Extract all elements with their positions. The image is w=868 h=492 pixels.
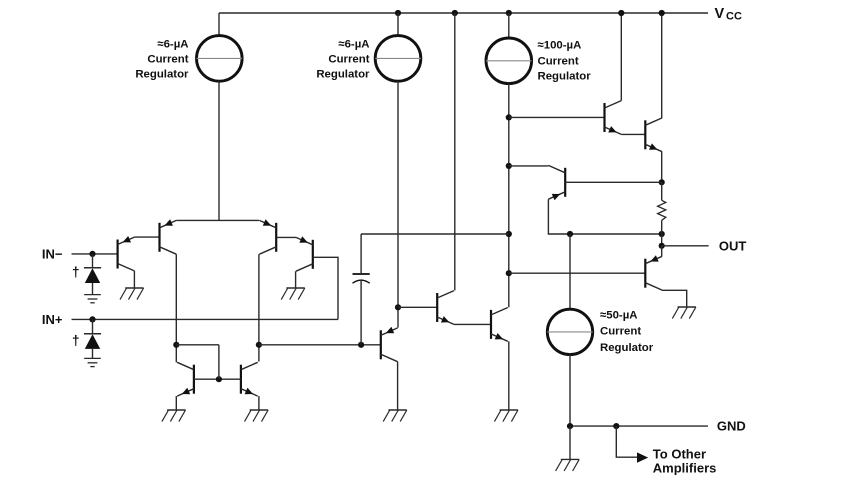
- junction U2/Q6-base dot: [395, 304, 401, 310]
- wire U4 top stem: [569, 234, 571, 309]
- svg-text:IN+: IN+: [42, 312, 63, 327]
- wire Q12 emitter down to R1: [661, 152, 663, 183]
- wire VCC to Q6 collector: [454, 13, 456, 290]
- wire U3 bus to Q10 collector: [509, 165, 549, 167]
- junction VCC-Q11 dot: [618, 10, 624, 16]
- junction VCC-U3 dot: [506, 10, 512, 16]
- wire U2 node to Q6 base: [398, 306, 437, 308]
- ground Q9 emitter: [245, 410, 269, 422]
- wire U3 top stem: [508, 13, 510, 38]
- ground Q1 collector: [120, 288, 144, 300]
- transistor Q5: [381, 327, 398, 362]
- wire Q6 emitter to Q7 base: [454, 323, 491, 325]
- transistor Q4: [296, 236, 313, 271]
- wire Q7 emitter to ground: [508, 341, 510, 410]
- svg-text:CC: CC: [726, 11, 742, 23]
- wire C1 bottom lead: [360, 281, 362, 345]
- svg-text:†: †: [72, 264, 80, 279]
- arrow to-other-amplifiers: [637, 452, 648, 462]
- svg-text:Regulator: Regulator: [600, 342, 654, 354]
- wire Q13 emitter to OUT node: [661, 246, 663, 256]
- label U1 value: [135, 38, 189, 80]
- transistor Q3: [259, 219, 276, 254]
- wire Q4 emitter to Q3 base: [276, 236, 296, 238]
- junction VCC-U2 dot: [395, 10, 401, 16]
- wire D2 anode to ground: [92, 349, 94, 358]
- svg-text:OUT: OUT: [719, 238, 747, 253]
- wire IN- to D1: [92, 254, 94, 268]
- wire Q9 collector up: [258, 345, 260, 362]
- wire R1 node to OUT: [661, 234, 663, 246]
- power VCC label: [715, 6, 742, 23]
- ground GND rail: [556, 459, 580, 471]
- ground D1: [84, 295, 101, 303]
- wire node A (input stage output): [259, 344, 381, 346]
- transistor Q12: [645, 118, 662, 152]
- wire Q10 emitter down: [548, 199, 661, 234]
- wire Q8 collector up: [175, 345, 177, 363]
- wire VCC rail: [219, 12, 708, 14]
- junction U3 bus / Q10 collector dot: [506, 163, 512, 169]
- wire Q1 emitter to Q2 base: [134, 236, 159, 238]
- wire GND rail to ground: [569, 426, 571, 459]
- wire C1 top lead: [360, 234, 362, 273]
- wire Q4 collector down: [295, 271, 297, 288]
- junction VCC-Q12 dot: [659, 10, 665, 16]
- transistor Q7: [491, 308, 508, 342]
- wire to-other-amplifiers branch: [616, 426, 637, 457]
- wire Q4 base to IN+: [313, 257, 338, 319]
- wire Q3 collector down to mirror: [258, 254, 260, 345]
- wire U2 top stem: [397, 13, 399, 36]
- transistor Q13: [645, 255, 662, 290]
- wire C1 to U3 bus: [361, 233, 509, 235]
- wire U1 top stem: [218, 13, 220, 36]
- ground D2: [84, 358, 101, 366]
- capacitor C1: [353, 274, 370, 283]
- wire IN+ to D2: [92, 319, 94, 333]
- diode D1: [84, 268, 101, 283]
- label U4 value: [600, 309, 654, 354]
- svg-text:To Other: To Other: [653, 446, 706, 461]
- junction mirror right node dot: [256, 342, 262, 348]
- junction U4-GND dot: [567, 423, 573, 429]
- label U3 value: [538, 40, 592, 83]
- junction U3 bus / C1 dot: [506, 231, 512, 237]
- svg-text:V: V: [715, 6, 725, 22]
- wire Q5 collector down: [397, 362, 399, 410]
- svg-text:IN−: IN−: [42, 247, 63, 262]
- wire left node to base-tie: [176, 344, 219, 346]
- wire Q12 collector to VCC: [661, 13, 663, 118]
- wire mirror base to left node: [218, 345, 220, 379]
- wire U3 output bus: [508, 84, 510, 308]
- resistor R1: [658, 200, 666, 220]
- transistor Q1: [118, 236, 135, 271]
- svg-text:≈50-µA: ≈50-µA: [600, 309, 638, 321]
- junction U4 top dot: [567, 231, 573, 237]
- svg-text:Current: Current: [538, 55, 579, 67]
- wire Q1 collector down: [133, 271, 135, 288]
- junction U3 bus / Q11 base dot: [506, 114, 512, 120]
- wire U3 bus to Q13 base: [509, 272, 646, 274]
- junction Q12/Q10-base/R1 dot: [659, 179, 665, 185]
- wire D1 anode to ground: [92, 283, 94, 294]
- wire U2 output down to Q5 emitter: [397, 81, 399, 327]
- ground Q7 emitter: [494, 410, 518, 422]
- svg-text:≈6-µA: ≈6-µA: [338, 38, 369, 50]
- junction mirror left node dot: [173, 342, 179, 348]
- ground Q5 collector: [383, 410, 407, 422]
- transistor Q11: [605, 101, 622, 135]
- ground Q13 collector: [672, 307, 696, 319]
- svg-text:Current: Current: [328, 53, 369, 65]
- junction R1 bottom dot: [659, 231, 665, 237]
- junction IN+ / D2 dot: [89, 316, 95, 322]
- junction GND branch dot: [613, 423, 619, 429]
- svg-text:Current: Current: [600, 326, 641, 338]
- label To Other Amplifiers: [653, 446, 717, 475]
- current regulator U4: [547, 309, 592, 354]
- wire Q11 emitter to Q12 base: [621, 133, 645, 135]
- current regulator U3: [486, 38, 532, 84]
- wire U1 output to input-pair emitters: [218, 81, 220, 220]
- svg-text:GND: GND: [717, 419, 746, 434]
- junction node A / C1 dot: [358, 342, 364, 348]
- transistor Q8: [177, 362, 194, 396]
- ground Q4 collector: [281, 288, 305, 300]
- junction IN- / D1 dot: [89, 251, 95, 257]
- transistor Q6: [437, 291, 454, 325]
- wire U4 to GND rail: [569, 355, 571, 427]
- svg-text:≈100-µA: ≈100-µA: [538, 40, 582, 52]
- wire Q9 emitter to ground: [258, 396, 260, 410]
- wire mirror bases tie: [194, 378, 241, 380]
- svg-text:†: †: [72, 333, 80, 348]
- wire Q13 collector to ground: [662, 290, 687, 307]
- svg-text:≈6-µA: ≈6-µA: [157, 38, 188, 50]
- junction OUT dot: [659, 243, 665, 249]
- wire Q2 collector down to mirror: [175, 254, 177, 345]
- wire IN+ lead: [72, 318, 339, 320]
- svg-text:Current: Current: [147, 53, 188, 65]
- junction U3 bus / Q13 base dot: [506, 270, 512, 276]
- current regulator U2: [375, 36, 421, 82]
- junction VCC-Q6 dot: [452, 10, 458, 16]
- svg-text:Regulator: Regulator: [135, 68, 189, 80]
- wire U3 bus to Q11 base: [509, 116, 605, 118]
- ground Q8 emitter: [162, 410, 186, 422]
- label U2 value: [316, 38, 370, 80]
- wire GND rail: [570, 425, 708, 427]
- svg-text:Regulator: Regulator: [538, 70, 592, 82]
- wire R1 bottom lead: [661, 220, 663, 234]
- wire Q10 base to R1 top node: [565, 181, 662, 183]
- transistor Q9: [241, 362, 258, 396]
- wire OUT lead: [662, 245, 709, 247]
- wire IN- lead: [72, 253, 118, 255]
- transistor Q2: [160, 219, 177, 254]
- transistor Q10: [548, 165, 565, 200]
- wire tail rail (Q2/Q3 emitters): [176, 219, 259, 221]
- wire R1 top lead: [661, 182, 663, 200]
- diode D2: [84, 334, 101, 349]
- svg-text:Regulator: Regulator: [316, 68, 370, 80]
- current regulator U1: [197, 36, 243, 82]
- wire Q11 collector to VCC: [620, 13, 622, 101]
- junction mirror bases dot: [216, 376, 222, 382]
- svg-text:Amplifiers: Amplifiers: [653, 461, 717, 476]
- wire Q8 emitter to ground: [175, 396, 177, 410]
